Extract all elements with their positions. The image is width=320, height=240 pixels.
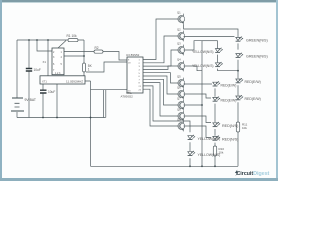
svg-text:Q5: Q5 [177, 75, 181, 79]
svg-text:Q1: Q1 [177, 11, 181, 15]
svg-text:U3 89S52: U3 89S52 [126, 53, 140, 57]
svg-text:1 2 3: 1 2 3 [55, 72, 61, 75]
svg-text:10k: 10k [242, 126, 247, 130]
svg-text:10uF: 10uF [48, 90, 55, 94]
svg-text:YELLOW(N/S): YELLOW(N/S) [192, 50, 213, 54]
svg-text:11.0592MHZ: 11.0592MHZ [66, 80, 83, 84]
svg-text:YELLOW(N/S): YELLOW(N/S) [192, 64, 213, 68]
svg-text:GREEN(N/S): GREEN(N/S) [246, 39, 268, 43]
svg-text:CircuitDigest: CircuitDigest [236, 171, 269, 177]
svg-text:RED(E/W): RED(E/W) [245, 80, 261, 84]
svg-text:Q8: Q8 [177, 108, 181, 112]
svg-text:Q3: Q3 [177, 42, 181, 46]
svg-text:Q7: Q7 [177, 97, 181, 101]
svg-text:XT1: XT1 [42, 80, 47, 84]
svg-text:RED(E/W): RED(E/W) [221, 83, 237, 87]
svg-text:RED(E/W): RED(E/W) [245, 97, 261, 101]
svg-text:Q6: Q6 [177, 86, 181, 90]
svg-text:AT89S52: AT89S52 [121, 94, 134, 98]
svg-text:YELLOW(N/S): YELLOW(N/S) [198, 153, 221, 157]
svg-text:X1: X1 [43, 60, 47, 64]
svg-text:YELLOW(N/S): YELLOW(N/S) [198, 137, 221, 141]
svg-text:Q2: Q2 [177, 28, 181, 32]
svg-text:RED(E/W): RED(E/W) [221, 99, 237, 103]
svg-text:R2: R2 [95, 46, 99, 50]
svg-text:RED(N/S): RED(N/S) [222, 138, 238, 142]
svg-text:10uF: 10uF [34, 68, 41, 72]
svg-text:RED(N/S): RED(N/S) [222, 124, 238, 128]
svg-text:Q9: Q9 [177, 118, 181, 122]
svg-text:9V BAT: 9V BAT [25, 98, 36, 102]
svg-text:1: 1 [88, 68, 90, 72]
svg-text:R1 10k: R1 10k [67, 34, 78, 38]
svg-text:GREEN(N/S): GREEN(N/S) [246, 55, 268, 59]
svg-text:Q4: Q4 [177, 58, 181, 62]
